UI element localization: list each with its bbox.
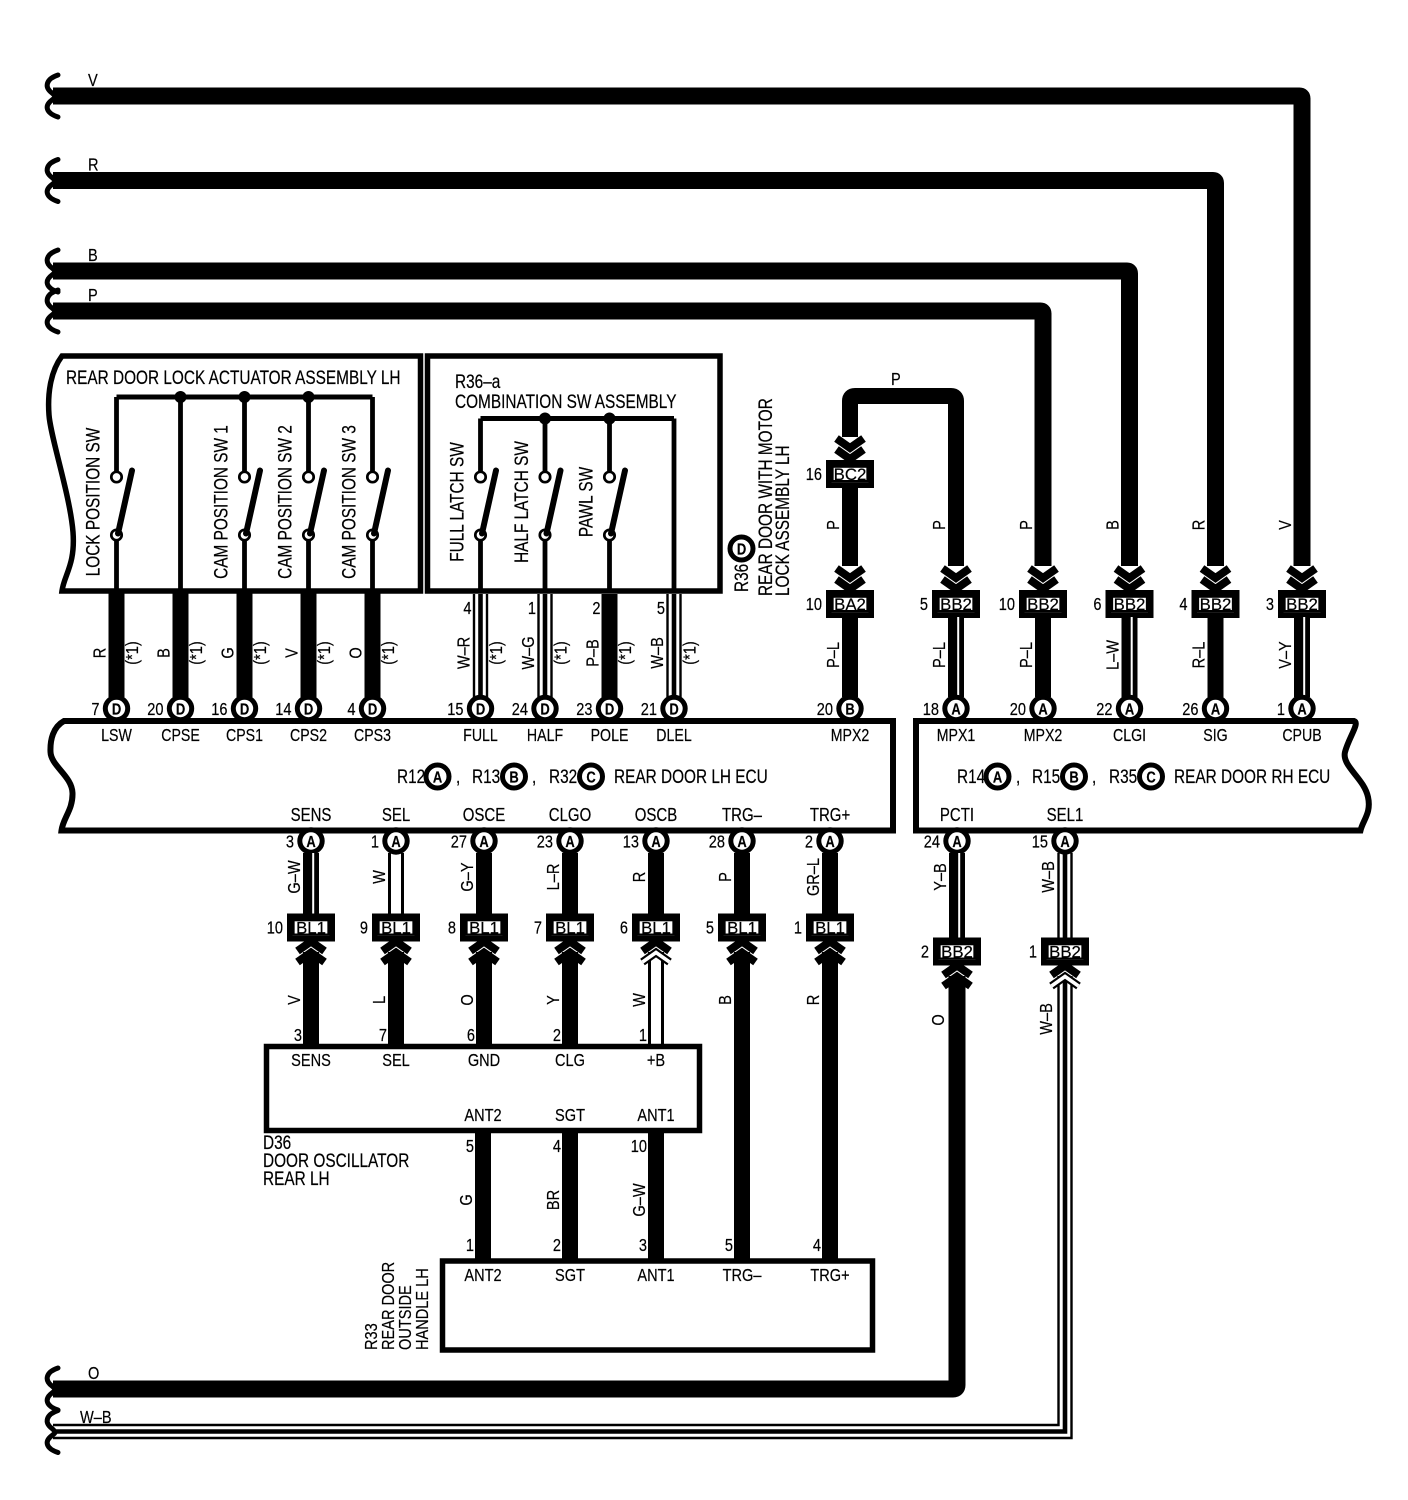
svg-text:14: 14: [275, 700, 291, 720]
svg-text:A: A: [433, 769, 443, 787]
label W-B bottom: [80, 1408, 112, 1428]
svg-text:B: B: [1103, 520, 1123, 530]
wire B (*1) to pin: [154, 593, 206, 697]
svg-text:O: O: [88, 1364, 99, 1384]
svg-text:A: A: [565, 834, 575, 852]
svg-text:LOCK ASSEMBLY LH: LOCK ASSEMBLY LH: [771, 445, 793, 596]
wire P label above BB2 5: [930, 520, 950, 530]
svg-text:A: A: [651, 834, 661, 852]
svg-text:BC2: BC2: [834, 465, 867, 484]
svg-text:1: 1: [1277, 700, 1285, 720]
svg-text:D: D: [112, 701, 121, 719]
svg-text:(*1): (*1): [251, 641, 271, 664]
arrow out of BL1 6: [630, 942, 670, 1047]
connector marker R36 circled D: [730, 537, 753, 592]
svg-text:COMBINATION SW ASSEMBLY: COMBINATION SW ASSEMBLY: [455, 390, 677, 412]
svg-text:6: 6: [620, 918, 628, 938]
wire R&#8211;L below BB2 4: [1189, 617, 1215, 697]
wire P&#8211;L below BB2 5: [930, 617, 959, 697]
label R33 REAR DOOR OUTSIDE HANDLE LH: [362, 1262, 433, 1350]
svg-text:MPX2: MPX2: [831, 727, 870, 746]
wire P BC2 to BA2: [824, 487, 850, 566]
svg-text:B: B: [88, 246, 98, 266]
svg-text:ANT1: ANT1: [637, 1106, 674, 1126]
svg-text:5: 5: [466, 1137, 474, 1157]
pin 23 D POLE: [576, 697, 628, 745]
svg-text:V: V: [282, 648, 302, 658]
svg-text:P–L: P–L: [930, 642, 950, 668]
wire R to BL1 6: [630, 853, 656, 914]
wire V (*1) to pin: [282, 593, 334, 697]
connector 10 BB2: [999, 593, 1064, 616]
svg-text:P–B: P–B: [583, 639, 603, 667]
svg-text:2: 2: [592, 599, 600, 619]
wire GR&#8211;L to BL1 1: [804, 853, 830, 914]
svg-text:R: R: [88, 155, 99, 175]
svg-text:9: 9: [360, 918, 368, 938]
wire V label above BB2 3: [1276, 520, 1296, 530]
svg-text:CLGI: CLGI: [1113, 727, 1146, 746]
svg-text:A: A: [391, 834, 401, 852]
svg-text:D: D: [605, 701, 614, 719]
svg-text:C: C: [586, 769, 596, 787]
wire CPSE direct: [178, 397, 183, 591]
svg-text:3: 3: [294, 1026, 302, 1046]
junction dot x=244.5: [239, 391, 251, 403]
svg-text:R: R: [804, 995, 824, 1006]
svg-text:D: D: [176, 701, 185, 719]
svg-text:W: W: [370, 870, 390, 884]
switch PAWL SW: [575, 419, 625, 592]
svg-text:5: 5: [920, 595, 928, 615]
svg-text:16: 16: [211, 700, 227, 720]
svg-text:D: D: [368, 701, 377, 719]
wire L&#8211;W below BB2 6: [1103, 617, 1132, 697]
svg-text:5: 5: [725, 1236, 733, 1256]
svg-text:8: 8: [448, 918, 456, 938]
wire O (*1) to pin: [346, 593, 398, 697]
arrow into BC2: [837, 439, 864, 460]
pin 26 A SIG: [1182, 697, 1227, 745]
svg-text:CPUB: CPUB: [1282, 727, 1321, 746]
label REAR DOOR WITH MOTOR LOCK ASSEMBLY LH: [754, 398, 793, 596]
junction dot x=545: [539, 413, 551, 425]
wire W&#8211;G pin 1: [519, 594, 571, 697]
svg-text:BL1: BL1: [727, 918, 757, 937]
svg-text:P: P: [891, 370, 901, 390]
svg-text:PAWL SW: PAWL SW: [575, 466, 597, 537]
svg-text:REAR DOOR LH ECU: REAR DOOR LH ECU: [614, 765, 768, 787]
svg-text:BB2: BB2: [941, 942, 973, 961]
svg-text:REAR DOOR LOCK ACTUATOR ASSEMB: REAR DOOR LOCK ACTUATOR ASSEMBLY LH: [66, 366, 401, 388]
box REAR DOOR LOCK ACTUATOR ASSEMBLY LH: [49, 356, 421, 591]
svg-text:(*1): (*1): [187, 641, 207, 664]
svg-text:1: 1: [466, 1236, 474, 1256]
svg-text:A: A: [951, 701, 961, 719]
pin 3 A SENS: [286, 805, 332, 853]
pin 15 D FULL: [447, 697, 498, 745]
wire W&#8211;R pin 4: [454, 594, 506, 697]
wire B bus: [53, 246, 1130, 566]
wire P label above BB2 10: [1017, 520, 1037, 530]
svg-text:W–B: W–B: [80, 1408, 112, 1428]
svg-text:24: 24: [512, 700, 528, 720]
svg-text:MPX2: MPX2: [1024, 727, 1063, 746]
junction dot x=609.5: [604, 413, 616, 425]
svg-text:BR: BR: [544, 1190, 564, 1210]
wire P to BL1 5: [716, 853, 742, 914]
connector 10 BL1: [267, 916, 332, 939]
svg-text:B: B: [154, 648, 174, 658]
svg-text:V–Y: V–Y: [1276, 641, 1296, 669]
svg-text:3: 3: [639, 1236, 647, 1256]
svg-text:ANT1: ANT1: [637, 1266, 674, 1286]
wire W to BL1 9: [370, 853, 403, 914]
wire G&#8211;W D36 to R33: [630, 1133, 656, 1261]
svg-text:5: 5: [706, 918, 714, 938]
svg-text:GND: GND: [468, 1051, 501, 1071]
wire R (*1) to pin: [90, 593, 142, 697]
svg-text:10: 10: [999, 595, 1015, 615]
svg-text:W–B: W–B: [1037, 1003, 1057, 1035]
svg-text:CPSE: CPSE: [161, 727, 200, 746]
junction dot x=308.5: [303, 391, 315, 403]
svg-text:,: ,: [1016, 765, 1020, 787]
label D36 DOOR OSCILLATOR REAR LH: [263, 1131, 409, 1189]
svg-text:R32: R32: [549, 765, 577, 787]
box REAR DOOR LH ECU: [50, 721, 893, 831]
svg-text:18: 18: [923, 700, 939, 720]
svg-text:Y–B: Y–B: [931, 863, 951, 891]
svg-text:A: A: [306, 834, 316, 852]
arrow into BB2 4: [1202, 569, 1229, 590]
R33 pin 2 SGT: [553, 1236, 585, 1286]
pin 27 A OSCE: [451, 805, 505, 853]
svg-text:R: R: [1189, 520, 1209, 531]
svg-text:P: P: [716, 872, 736, 882]
pin 21 D DLEL: [641, 697, 692, 745]
svg-text:D: D: [737, 541, 746, 559]
svg-text:V: V: [1276, 520, 1296, 530]
svg-text:BB2: BB2: [1027, 595, 1059, 614]
svg-text:R36: R36: [730, 564, 752, 592]
svg-text:G–W: G–W: [630, 1183, 650, 1217]
pin 15 A SEL1: [1032, 805, 1084, 853]
connector 2 BB2: [921, 940, 978, 963]
arrow out of BL1 7: [544, 942, 584, 1047]
svg-text:BB2: BB2: [1200, 595, 1232, 614]
pin 13 A OSCB: [623, 805, 677, 853]
switch CAM POSITION SW 1: [210, 397, 260, 591]
svg-text:24: 24: [924, 832, 940, 852]
svg-text:CPS3: CPS3: [354, 727, 391, 746]
svg-text:REAR LH: REAR LH: [263, 1167, 330, 1189]
arrow into BB2 5: [943, 569, 970, 590]
switch LOCK POSITION SW: [82, 397, 132, 591]
arrow into BB2 3: [1289, 569, 1316, 590]
pin 1 A CPUB: [1277, 697, 1322, 745]
wire P bus: [53, 286, 1043, 566]
svg-text:,: ,: [1092, 765, 1096, 787]
connector 16 BC2: [806, 463, 871, 486]
svg-text:A: A: [825, 834, 835, 852]
wire V bus: [53, 71, 1302, 566]
svg-text:W–B: W–B: [1039, 861, 1059, 893]
svg-text:OSCB: OSCB: [635, 805, 677, 826]
wire-break brace W-B: [47, 1411, 58, 1453]
svg-text:5: 5: [657, 599, 665, 619]
svg-text:CLGO: CLGO: [549, 805, 591, 826]
switch CAM POSITION SW 3: [338, 397, 388, 591]
svg-text:SENS: SENS: [291, 805, 332, 826]
svg-text:HANDLE LH: HANDLE LH: [413, 1268, 433, 1350]
pin 1 A SEL: [371, 805, 410, 853]
svg-text:CAM POSITION SW 2: CAM POSITION SW 2: [274, 425, 296, 579]
svg-text:P: P: [930, 520, 950, 530]
switch HALF LATCH SW: [510, 419, 560, 592]
svg-text:CAM POSITION SW 3: CAM POSITION SW 3: [338, 425, 360, 579]
D36 pin 10 ANT1: [631, 1106, 675, 1157]
svg-text:15: 15: [447, 700, 463, 720]
wire W-B from BB2 to bottom bus: [53, 976, 1072, 1438]
svg-text:A: A: [737, 834, 747, 852]
box D36 DOOR OSCILLATOR REAR LH: [267, 1047, 700, 1131]
svg-text:P: P: [824, 520, 844, 530]
pin 24 A PCTI: [924, 805, 974, 853]
wire V&#8211;Y below BB2 3: [1276, 617, 1305, 697]
svg-text:P: P: [1017, 520, 1037, 530]
svg-text:C: C: [1146, 769, 1156, 787]
svg-text:2: 2: [805, 832, 813, 852]
D36 pin 2 CLG: [553, 1026, 585, 1071]
svg-text:R14: R14: [957, 765, 986, 787]
svg-text:1: 1: [639, 1026, 647, 1046]
pin 23 A CLGO: [537, 805, 591, 853]
svg-text:BA2: BA2: [834, 595, 866, 614]
switch CAM POSITION SW 2: [274, 397, 324, 591]
svg-text:BL1: BL1: [381, 918, 411, 937]
svg-text:DLEL: DLEL: [656, 727, 692, 746]
svg-text:R–L: R–L: [1189, 642, 1209, 669]
svg-text:SGT: SGT: [555, 1106, 585, 1126]
D36 pin 7 SEL: [379, 1026, 410, 1071]
box R33 REAR DOOR OUTSIDE HANDLE LH: [443, 1261, 873, 1350]
svg-text:HALF: HALF: [527, 727, 563, 746]
svg-text:,: ,: [532, 765, 536, 787]
svg-text:4: 4: [813, 1236, 821, 1256]
svg-text:BL1: BL1: [555, 918, 585, 937]
svg-text:(*1): (*1): [551, 641, 571, 664]
svg-text:FULL: FULL: [463, 727, 498, 746]
svg-text:D: D: [476, 701, 485, 719]
svg-text:R35: R35: [1109, 765, 1137, 787]
internal bus wire (combination box): [481, 416, 675, 421]
svg-text:R36–a: R36–a: [455, 370, 501, 392]
svg-text:4: 4: [1179, 595, 1187, 615]
svg-text:OSCE: OSCE: [463, 805, 505, 826]
arrow into BB2 6: [1116, 569, 1143, 590]
svg-text:CAM POSITION SW 1: CAM POSITION SW 1: [210, 425, 232, 579]
svg-text:6: 6: [1093, 595, 1101, 615]
junction dot x=180.5: [175, 391, 187, 403]
R33 pin 1 ANT2: [464, 1236, 501, 1286]
svg-text:O: O: [346, 647, 366, 658]
pin 28 A TRG&#8211;: [709, 805, 763, 853]
svg-text:POLE: POLE: [591, 727, 629, 746]
wire-break brace O: [47, 1368, 58, 1410]
wire Y-B PCTI to BB2: [931, 853, 960, 938]
pin 2 A TRG+: [805, 805, 850, 853]
svg-text:SEL1: SEL1: [1047, 805, 1084, 826]
svg-text:A: A: [479, 834, 489, 852]
svg-text:4: 4: [553, 1137, 561, 1157]
svg-text:10: 10: [267, 918, 283, 938]
wire G&#8211;W to BL1 10: [285, 853, 314, 914]
svg-text:28: 28: [709, 832, 725, 852]
arrow out of BL1 8: [458, 942, 498, 1047]
arrow into BA2: [837, 569, 864, 590]
svg-text:R: R: [630, 872, 650, 883]
svg-text:TRG–: TRG–: [723, 1266, 763, 1286]
svg-text:,: ,: [456, 765, 460, 787]
svg-text:L–W: L–W: [1103, 640, 1123, 670]
wire R bus: [53, 155, 1216, 566]
wire W&#8211;B pin 5: [648, 594, 700, 697]
svg-text:MPX1: MPX1: [937, 727, 976, 746]
svg-text:G–W: G–W: [285, 860, 305, 894]
svg-text:L–R: L–R: [544, 863, 564, 890]
D36 pin 6 GND: [467, 1026, 500, 1071]
svg-text:(*1): (*1): [616, 641, 636, 664]
svg-text:BB2: BB2: [940, 595, 972, 614]
svg-text:A: A: [952, 834, 962, 852]
wire G (*1) to pin: [218, 593, 270, 697]
svg-text:+B: +B: [647, 1051, 665, 1071]
svg-text:R: R: [90, 648, 110, 659]
connector 10 BA2: [806, 593, 871, 616]
svg-text:7: 7: [379, 1026, 387, 1046]
svg-text:B: B: [509, 769, 518, 787]
svg-text:G: G: [457, 1194, 477, 1205]
svg-text:V: V: [285, 995, 305, 1005]
svg-text:10: 10: [806, 595, 822, 615]
D36 pin 4 SGT: [553, 1106, 585, 1157]
svg-text:23: 23: [576, 700, 592, 720]
R33 pin 3 ANT1: [637, 1236, 674, 1286]
box R36-a COMBINATION SW ASSEMBLY: [428, 356, 721, 591]
svg-text:P–L: P–L: [1017, 642, 1037, 668]
wire G&#8211;Y to BL1 8: [458, 853, 484, 914]
svg-text:2: 2: [553, 1026, 561, 1046]
svg-text:CPS1: CPS1: [226, 727, 263, 746]
wire-break brace V: [47, 75, 58, 117]
pin 14 D CPS2: [275, 697, 327, 745]
wire O from BB2 to bottom bus: [53, 966, 971, 1390]
pin 16 D CPS1: [211, 697, 263, 745]
svg-text:R15: R15: [1032, 765, 1060, 787]
svg-text:D: D: [540, 701, 549, 719]
svg-text:26: 26: [1182, 700, 1198, 720]
svg-text:BL1: BL1: [815, 918, 845, 937]
svg-text:(*1): (*1): [680, 641, 700, 664]
svg-text:LOCK POSITION SW: LOCK POSITION SW: [82, 427, 104, 576]
svg-text:A: A: [1125, 701, 1135, 719]
svg-text:1: 1: [371, 832, 379, 852]
R33 pin 5 TRG&#8211;: [723, 1236, 763, 1286]
connector 6 BB2: [1093, 593, 1150, 616]
svg-text:23: 23: [537, 832, 553, 852]
svg-text:L: L: [370, 996, 390, 1004]
svg-text:W: W: [630, 993, 650, 1007]
svg-text:4: 4: [463, 599, 471, 619]
svg-text:PCTI: PCTI: [940, 805, 974, 826]
svg-text:P: P: [88, 286, 98, 306]
svg-text:O: O: [458, 994, 478, 1005]
svg-text:A: A: [993, 769, 1003, 787]
wire P branch to BC2 and BB2-5: [850, 370, 956, 566]
svg-text:W–B: W–B: [648, 637, 668, 669]
pin 20 B MPX2: [817, 697, 870, 745]
svg-text:D: D: [304, 701, 313, 719]
wire P-L to MPX2 pin 20 B: [824, 617, 850, 697]
svg-text:3: 3: [1266, 595, 1274, 615]
svg-text:7: 7: [91, 700, 99, 720]
connector 5 BL1: [706, 916, 763, 939]
connector 1 BB2: [1029, 940, 1086, 963]
svg-text:21: 21: [641, 700, 657, 720]
svg-text:G–Y: G–Y: [458, 862, 478, 891]
arrow into 1 BB2: [1052, 966, 1079, 987]
svg-text:SEL: SEL: [382, 805, 410, 826]
svg-text:W–R: W–R: [454, 637, 474, 670]
svg-text:BB2: BB2: [1286, 595, 1318, 614]
svg-text:R13: R13: [472, 765, 500, 787]
svg-text:7: 7: [534, 918, 542, 938]
svg-text:6: 6: [467, 1026, 475, 1046]
svg-text:A: A: [1297, 701, 1307, 719]
svg-text:FULL LATCH SW: FULL LATCH SW: [446, 442, 468, 562]
wire P&#8211;L below BB2 10: [1017, 617, 1043, 697]
svg-text:3: 3: [286, 832, 294, 852]
svg-text:4: 4: [347, 700, 355, 720]
svg-text:P–L: P–L: [824, 642, 844, 668]
pin 18 A MPX1: [923, 697, 976, 745]
svg-text:1: 1: [794, 918, 802, 938]
svg-text:B: B: [1069, 769, 1078, 787]
label R12 A R13 B R32 C REAR DOOR LH ECU: [397, 765, 768, 788]
svg-text:A: A: [1211, 701, 1221, 719]
pin 24 D HALF: [512, 697, 564, 745]
wire R label above BB2 4: [1189, 520, 1209, 531]
D36 pin 1 +B: [639, 1026, 665, 1071]
svg-text:(*1): (*1): [123, 641, 143, 664]
svg-text:TRG+: TRG+: [810, 805, 850, 826]
svg-text:22: 22: [1096, 700, 1112, 720]
svg-text:(*1): (*1): [315, 641, 335, 664]
svg-text:R12: R12: [397, 765, 425, 787]
svg-text:GR–L: GR–L: [804, 858, 824, 896]
svg-text:LSW: LSW: [101, 727, 132, 746]
svg-text:B: B: [845, 701, 854, 719]
svg-text:A: A: [1060, 834, 1070, 852]
svg-text:2: 2: [921, 942, 929, 962]
wire BR D36 to R33: [544, 1133, 570, 1261]
pin 7 D LSW: [91, 697, 131, 745]
svg-text:CLG: CLG: [555, 1051, 585, 1071]
arrow out of BL1 1: [804, 942, 844, 1263]
svg-text:TRG+: TRG+: [810, 1266, 849, 1286]
svg-text:HALF LATCH SW: HALF LATCH SW: [510, 440, 532, 562]
